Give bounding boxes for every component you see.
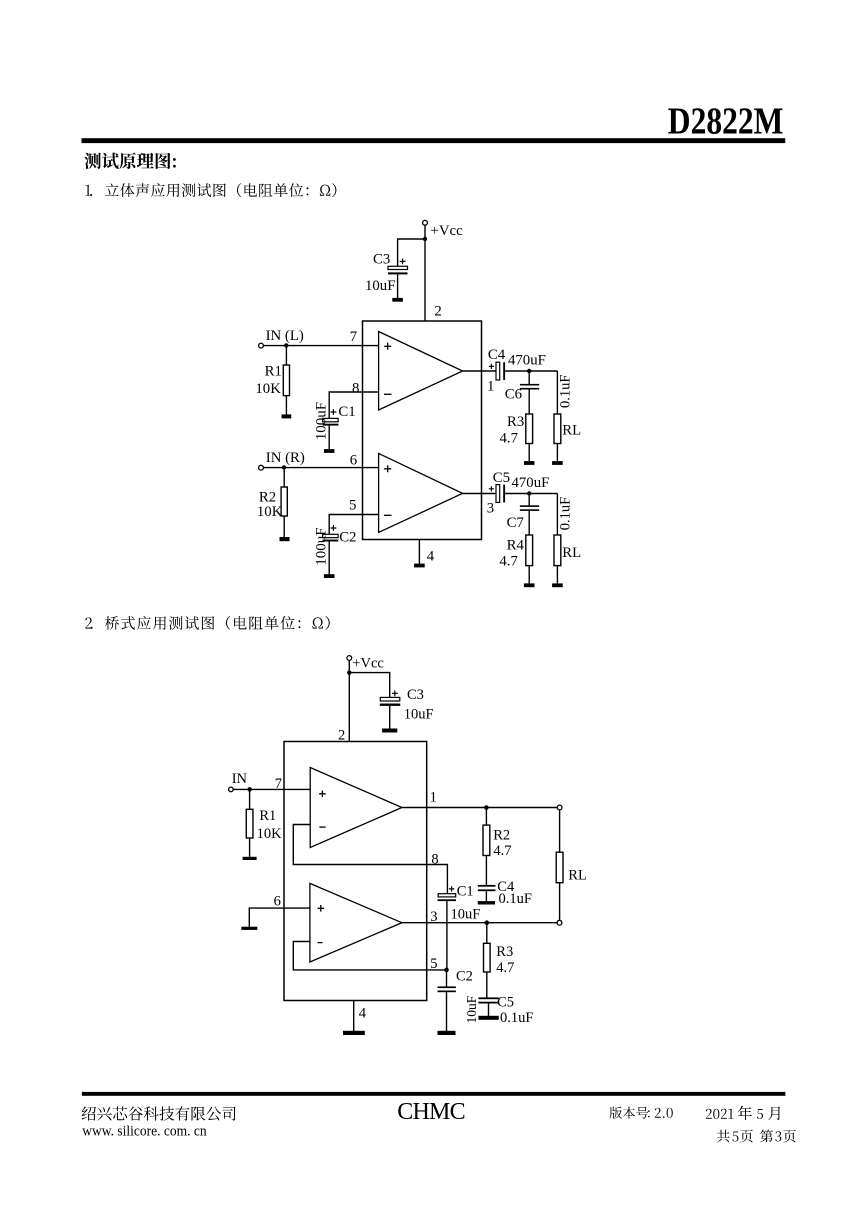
- svg-text:10K: 10K: [257, 504, 283, 520]
- svg-text:R1: R1: [265, 363, 282, 379]
- svg-text:2: 2: [434, 304, 441, 320]
- svg-text:3: 3: [487, 501, 494, 517]
- svg-text:CHMC: CHMC: [397, 1099, 465, 1125]
- svg-text:10K: 10K: [255, 381, 281, 397]
- svg-text:470uF: 470uF: [512, 475, 550, 491]
- svg-text:RL: RL: [562, 545, 581, 561]
- svg-text:4: 4: [427, 548, 435, 564]
- svg-text:470uF: 470uF: [508, 353, 546, 369]
- svg-text:C6: C6: [505, 386, 522, 402]
- svg-text:C5: C5: [497, 995, 514, 1011]
- svg-text:100uF: 100uF: [313, 527, 329, 565]
- svg-text:+Vcc: +Vcc: [431, 223, 464, 239]
- svg-text:8: 8: [431, 851, 438, 867]
- svg-text:1: 1: [430, 789, 437, 805]
- svg-text:R2: R2: [259, 490, 276, 506]
- svg-text:R3: R3: [507, 414, 524, 430]
- svg-text:0.1uF: 0.1uF: [500, 1010, 533, 1026]
- svg-text:IN (L): IN (L): [266, 328, 304, 344]
- svg-text:+Vcc: +Vcc: [352, 656, 384, 672]
- svg-text:10uF: 10uF: [451, 906, 481, 922]
- svg-text:5: 5: [349, 498, 356, 514]
- svg-text:5: 5: [430, 956, 437, 972]
- svg-text:4.7: 4.7: [493, 843, 511, 859]
- svg-text:8: 8: [352, 380, 359, 396]
- svg-text:R3: R3: [496, 944, 513, 960]
- svg-text:10uF: 10uF: [365, 278, 395, 294]
- svg-text:0.1uF: 0.1uF: [557, 375, 573, 408]
- svg-text:10K: 10K: [257, 826, 283, 842]
- svg-text:www. silicore. com. cn: www. silicore. com. cn: [82, 1123, 207, 1139]
- svg-text:7: 7: [275, 776, 282, 792]
- svg-text:IN: IN: [232, 771, 248, 787]
- svg-text:RL: RL: [562, 422, 581, 438]
- svg-text:C3: C3: [373, 252, 390, 268]
- svg-text:C2: C2: [456, 969, 473, 985]
- svg-text:RL: RL: [568, 867, 587, 883]
- svg-text:4: 4: [359, 1006, 367, 1022]
- svg-text:4.7: 4.7: [496, 960, 514, 976]
- svg-text:6: 6: [350, 453, 357, 469]
- svg-text:10uF: 10uF: [464, 995, 479, 1023]
- svg-text:R2: R2: [493, 828, 510, 844]
- svg-text:R1: R1: [259, 808, 276, 824]
- svg-text:C2: C2: [339, 530, 356, 546]
- svg-text:3: 3: [430, 909, 437, 925]
- svg-text:C7: C7: [507, 515, 524, 531]
- svg-text:C3: C3: [407, 687, 424, 703]
- svg-text:IN (R): IN (R): [266, 450, 305, 466]
- svg-text:C4: C4: [488, 347, 506, 363]
- svg-text:100uF: 100uF: [313, 402, 329, 440]
- svg-text:0.1uF: 0.1uF: [499, 891, 532, 907]
- svg-text:C5: C5: [493, 470, 510, 486]
- svg-text:6: 6: [274, 894, 281, 910]
- svg-text:D2822M: D2822M: [668, 102, 784, 143]
- svg-text:1: 1: [487, 379, 494, 395]
- svg-text:0.1uF: 0.1uF: [557, 497, 573, 530]
- svg-text:4.7: 4.7: [499, 554, 518, 570]
- svg-text:7: 7: [350, 329, 357, 345]
- svg-text:4.7: 4.7: [500, 431, 519, 447]
- svg-text:10uF: 10uF: [404, 706, 434, 722]
- svg-text:C1: C1: [338, 404, 355, 420]
- svg-text:C1: C1: [457, 884, 474, 900]
- svg-text:R4: R4: [507, 538, 525, 554]
